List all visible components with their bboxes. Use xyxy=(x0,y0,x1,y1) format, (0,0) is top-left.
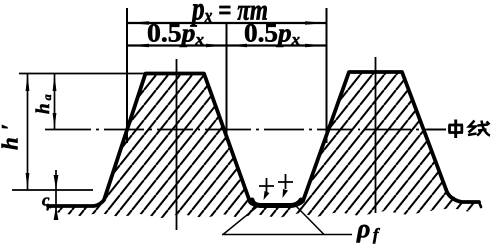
extension line at middle (valley side flank) xyxy=(226,24,228,140)
svg-text:0.5px: 0.5px xyxy=(244,19,300,49)
dimension h' xyxy=(27,74,29,191)
dimension c xyxy=(55,170,57,220)
dimension line px = pi*m xyxy=(127,22,327,24)
dimension ha xyxy=(54,74,56,130)
svg-text:ha: ha xyxy=(33,91,54,114)
svg-text:0.5px: 0.5px xyxy=(147,19,204,49)
centerline of right tooth xyxy=(375,57,377,213)
hatching (rack body cross-section fill) xyxy=(48,72,481,218)
label 中线 (centerline) drawn as strokes xyxy=(449,120,491,139)
tooth profile outline xyxy=(48,72,479,206)
right root line end hook xyxy=(479,202,481,207)
extension line at tooth top level xyxy=(19,73,146,75)
left root line end tick xyxy=(48,206,49,210)
leader line to centerline label xyxy=(427,129,446,131)
label px = pi m xyxy=(189,0,268,27)
svg-text:ρf: ρf xyxy=(356,214,381,244)
extension line at right tooth flank xyxy=(326,8,328,143)
extension line at h' bottom (working depth line) xyxy=(12,189,93,191)
fillet center mark right (+) xyxy=(278,174,293,189)
extension line at left flank pitch point xyxy=(126,8,128,143)
centerline of left tooth xyxy=(176,59,178,230)
leader triangle for root fillet xyxy=(222,206,352,235)
svg-text:h′: h′ xyxy=(0,117,23,150)
svg-text:c: c xyxy=(42,191,50,210)
dimension line 0.5px (left and right halves) xyxy=(127,44,327,46)
fillet center mark left (+) xyxy=(259,178,274,193)
pitch line (dash-dot centerline) xyxy=(45,129,446,131)
valley bottom thick line xyxy=(252,200,301,206)
